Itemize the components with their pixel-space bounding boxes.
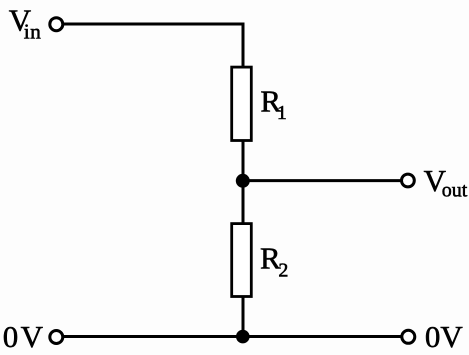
terminal Vin open circle: [50, 18, 63, 31]
wire from node A to Vout terminal: [243, 179, 401, 182]
terminal 0V left open circle: [50, 331, 63, 344]
terminal 0V right open circle: [402, 330, 415, 343]
resistor R1: [232, 67, 252, 140]
wire 0V rail from left terminal to right terminal: [64, 335, 401, 338]
terminal Vout open circle: [402, 174, 415, 187]
node B junction dot on 0V rail: [236, 330, 250, 344]
svg-text:0: 0: [425, 319, 441, 354]
wire from node A to R2 top: [242, 181, 245, 224]
node A junction dot: [236, 174, 250, 188]
wire top horizontal from Vin terminal to corner: [64, 23, 244, 26]
wire from R2 bottom to node B: [242, 296, 245, 338]
svg-text:out: out: [442, 180, 468, 202]
svg-text:1: 1: [277, 102, 287, 124]
svg-text:0: 0: [3, 319, 18, 354]
svg-text:V: V: [21, 319, 44, 354]
resistor R2: [232, 224, 252, 297]
svg-text:2: 2: [278, 260, 288, 282]
wire from R1 bottom to node A: [242, 140, 245, 182]
wire top vertical from corner down to R1 top: [242, 23, 245, 69]
svg-text:V: V: [440, 319, 463, 354]
svg-text:in: in: [24, 20, 42, 44]
